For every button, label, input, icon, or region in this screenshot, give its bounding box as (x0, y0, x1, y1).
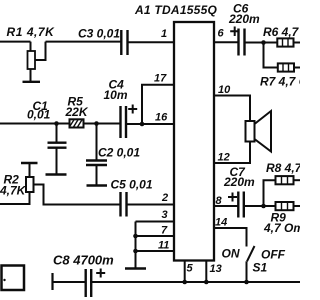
wire top to C3 (46, 41, 122, 43)
wire pin13 (205, 261, 207, 283)
svg-text:8: 8 (216, 195, 223, 207)
wire switch to rail (246, 261, 248, 282)
capacitor C7 (238, 192, 244, 218)
wire C5 to pin2 (127, 204, 174, 206)
wire R1 bottom lead (30, 69, 32, 81)
wire pin7 (136, 235, 174, 237)
svg-text:10m: 10m (104, 88, 128, 102)
R9 internal bars (282, 202, 288, 210)
wire R2 wiper tap (34, 185, 121, 205)
wire pin5 (184, 261, 186, 283)
wire pin6 (214, 41, 238, 43)
R8 internal bars (282, 176, 288, 184)
svg-text:C5 0,01: C5 0,01 (111, 178, 153, 192)
R5 hatch (70, 120, 82, 127)
wire input2 left (0, 123, 70, 125)
wire C7 to R9 (244, 205, 276, 207)
node pin7 junction (133, 234, 138, 239)
plus C6 (230, 27, 239, 37)
resistor R1 (pot body) (28, 51, 36, 69)
node R8 R9 junction (261, 204, 266, 209)
wire R1 wiper tap (35, 42, 46, 60)
svg-text:2: 2 (161, 192, 168, 204)
node R6 R7 junction (261, 40, 266, 45)
wire R9 to edge (294, 205, 301, 207)
svg-text:220m: 220m (228, 12, 260, 26)
resistor R7 (278, 63, 294, 71)
wire R2 top lead (29, 163, 31, 177)
wire R7 to edge (294, 67, 300, 69)
rail terminal tick (51, 273, 53, 290)
svg-text:R6 4,7: R6 4,7 (263, 25, 300, 39)
wire R7 branch (264, 43, 278, 68)
plus C8 (96, 269, 105, 278)
ground R2 top (21, 162, 38, 164)
svg-text:0,01: 0,01 (27, 107, 51, 121)
svg-text:220m: 220m (223, 175, 255, 189)
svg-text:OFF: OFF (261, 248, 286, 262)
wire rail right (91, 281, 300, 283)
svg-text:16: 16 (155, 112, 168, 124)
wire R2 bottom lead (0, 192, 30, 204)
ground R1 (23, 81, 41, 83)
wire rail to C8 (53, 281, 86, 283)
capacitor C5 (121, 192, 127, 217)
resistor R5 (70, 119, 84, 127)
svg-text:4,7 Om: 4,7 Om (263, 221, 300, 235)
svg-text:3: 3 (162, 209, 168, 221)
node pin17 riser junction (140, 122, 145, 127)
svg-text:S1: S1 (253, 261, 268, 275)
svg-text:C3 0,01: C3 0,01 (78, 27, 120, 41)
node switch rail (244, 280, 249, 285)
svg-text:R8 4,7: R8 4,7 (266, 161, 300, 175)
resistor R8 (276, 176, 294, 184)
svg-text:4,7K: 4,7K (0, 184, 27, 198)
node pin11 junction (133, 249, 138, 254)
wire C6 to R6 (245, 42, 278, 44)
capacitor C6 (239, 29, 245, 56)
svg-text:1: 1 (161, 28, 167, 40)
wire R8 to edge (294, 179, 301, 181)
svg-text:14: 14 (215, 217, 227, 229)
speaker BA1 (246, 121, 255, 142)
capacitor C1 (48, 143, 67, 148)
dot in box (3, 279, 5, 281)
svg-text:A1 TDA1555Q: A1 TDA1555Q (134, 3, 218, 17)
svg-text:R1 4,7K: R1 4,7K (7, 25, 56, 39)
ground pins 3-7-11 (125, 267, 146, 269)
wire pin10 (214, 96, 250, 122)
wire input1 left (0, 42, 31, 51)
wire speaker to pin12 (214, 142, 250, 164)
capacitor C8 (86, 269, 92, 297)
wire pin3 (136, 221, 174, 223)
wire R5 to C4 (84, 123, 121, 125)
capacitor C2 (86, 161, 107, 166)
svg-text:ON: ON (222, 247, 240, 261)
node C1 junction (54, 121, 59, 126)
wire gnd bus 3-7-11 (135, 222, 137, 268)
svg-text:22K: 22K (65, 105, 89, 119)
R6 internal bars (283, 38, 289, 46)
plus C4 (128, 105, 137, 114)
wire R6 to edge (294, 42, 301, 44)
svg-text:10: 10 (218, 84, 231, 96)
wire C2 to ground (96, 165, 98, 185)
wire C2 drop (96, 124, 98, 161)
ground C1 (46, 173, 67, 175)
svg-text:11: 11 (158, 240, 169, 252)
svg-text:12: 12 (218, 152, 230, 164)
wire pin14 (214, 228, 247, 247)
wire C1 to ground (56, 148, 58, 174)
wire pin17 (142, 85, 174, 124)
wire R8 branch (264, 180, 276, 206)
capacitor C4 (121, 106, 127, 138)
resistor R2 (pot body) (26, 177, 34, 192)
node C2 junction (94, 121, 99, 126)
op-amp U1 IC box TDA1555Q (174, 22, 214, 261)
capacitor C3 (121, 30, 127, 55)
svg-text:13: 13 (210, 263, 222, 275)
resistor R9 (276, 202, 294, 210)
svg-text:6: 6 (218, 28, 225, 40)
svg-text:7: 7 (161, 225, 168, 237)
node pin5 rail (182, 280, 187, 285)
wire C3 to pin1 (128, 41, 174, 43)
R7 internal bars (283, 63, 289, 71)
wire C1 drop (56, 124, 58, 143)
wire C4 to pin16 (126, 123, 174, 125)
plus C7 (228, 193, 237, 202)
svg-text:R7 4,7 O: R7 4,7 O (260, 75, 300, 89)
wire pin8 (214, 205, 238, 207)
ground C2 (87, 184, 108, 186)
resistor R6 (277, 38, 293, 46)
svg-text:C8 4700m: C8 4700m (53, 253, 114, 268)
switch S1 blade (247, 246, 255, 261)
svg-text:17: 17 (154, 73, 167, 85)
svg-text:5: 5 (187, 263, 194, 275)
wire pin11 (136, 250, 174, 252)
svg-text:C2 0,01: C2 0,01 (98, 146, 140, 160)
node pin13 rail (204, 280, 209, 285)
connector box bottom-left (2, 266, 25, 291)
